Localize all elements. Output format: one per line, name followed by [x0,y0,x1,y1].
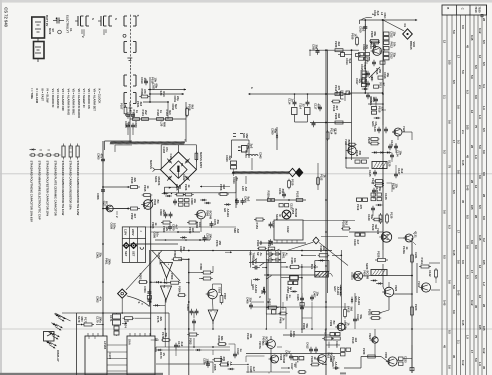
svg-text:0.6: 0.6 [478,175,482,179]
scan edge bottom left [0,373,163,375]
am bar antenna [241,176,248,191]
rectifier bridge outer diamond [160,152,196,187]
svg-text:45: 45 [442,345,446,349]
top legend symbol labels [48,18,118,35]
svg-text:C171: C171 [109,315,113,322]
svg-text:105: 105 [447,60,451,65]
diode row D120 [372,151,392,153]
clock IC 2 [127,333,159,375]
output transformer C220 [365,263,387,276]
svg-text:17: 17 [456,55,460,59]
fold line lower [0,328,492,330]
svg-text:17: 17 [452,140,456,144]
transistor 7224 small [368,333,378,343]
coil lead [246,143,253,170]
svg-text:C: C [461,8,465,10]
svg-text:AM: AM [244,187,248,192]
wire stub x271 [271,127,279,150]
svg-text:10k: 10k [293,258,297,263]
svg-text:P307: P307 [223,293,227,300]
am converter devices [288,93,311,122]
svg-text:OA: OA [374,122,378,126]
capacitor C070 [168,224,178,231]
svg-text:V5 = ALARM IN BUZ: V5 = ALARM IN BUZ [72,89,76,116]
svg-text:9V: 9V [51,29,55,33]
transistor 7403 [351,270,369,281]
svg-text:10n: 10n [198,222,202,227]
svg-text:P230: P230 [362,348,366,355]
svg-text:S: S [114,18,118,20]
svg-text:100k: 100k [107,259,111,266]
svg-text:C1: C1 [69,28,73,32]
svg-text:7141: 7141 [417,281,421,288]
svg-text:S220: S220 [365,263,369,270]
legend resistor symbol 3 [45,150,52,156]
svg-text:0.6: 0.6 [452,310,456,314]
capacitor C405 stack [296,293,304,333]
svg-text:1N: 1N [162,353,166,357]
coil S1 [246,152,263,159]
svg-text:105: 105 [470,205,474,210]
resistor P107 [120,103,127,116]
svg-text:2.1: 2.1 [456,340,460,344]
wire center links [150,258,230,352]
svg-text:100u: 100u [112,223,116,230]
svg-text:BC548: BC548 [208,211,212,220]
svg-text:28: 28 [482,304,486,308]
svg-text:STANDARD POLYTHENE CAPACITOR 1: STANDARD POLYTHENE CAPACITOR 10% 63V [30,161,34,222]
resistor P223 vertical on bus [411,304,419,317]
svg-text:1.2: 1.2 [482,282,486,286]
switch S401 contacts [267,249,281,256]
wave band switch cluster [232,133,250,158]
svg-text:12: 12 [478,55,482,59]
svg-text:P172: P172 [157,253,161,260]
svg-text:P174: P174 [124,322,128,329]
svg-text:0.12: 0.12 [470,300,474,306]
svg-text:C412: C412 [306,342,310,349]
diode pair D220 [371,279,383,284]
rf chain y98-122 parts [369,97,386,127]
svg-text:45: 45 [482,366,486,370]
svg-text:7010: 7010 [474,6,478,13]
svg-text:50u: 50u [370,215,374,220]
svg-text:0.45: 0.45 [442,300,446,306]
resistor P108 [186,104,195,117]
wire switch row [249,260,319,310]
svg-text:47n: 47n [98,297,102,302]
svg-text:17: 17 [456,230,460,234]
svg-text:47n: 47n [254,259,258,264]
svg-text:4p7: 4p7 [127,122,131,127]
wire bottom left runs [246,356,290,374]
wire bridge frame [161,145,196,170]
vertical x318 with box [317,163,327,190]
legend ganged switch symbol [123,15,140,68]
svg-text:1k: 1k [154,223,158,227]
svg-text:17: 17 [470,270,474,274]
svg-text:1u: 1u [239,349,243,353]
legend battery symbol [32,15,49,62]
svg-text:10n: 10n [193,199,197,204]
svg-text:68k: 68k [220,336,224,341]
band legend text column group [30,89,102,119]
svg-text:33n: 33n [216,220,220,225]
rf chain stack y70-92 [355,70,368,90]
svg-text:10n: 10n [315,292,319,297]
resistor P030a [139,89,150,98]
svg-text:C006: C006 [96,193,100,200]
resistor P120 pair [367,137,380,145]
svg-text:FM: FM [365,58,369,63]
resistor P101 mains dropper [195,151,203,168]
svg-text:TIME: TIME [251,253,255,260]
scan edge left [0,0,2,375]
boxes right of 7118 [353,198,368,246]
svg-text:II = ALARM: II = ALARM [35,89,39,104]
svg-text:0.45: 0.45 [461,160,465,166]
svg-text:220V: 220V [131,229,135,236]
sheet code CS 72 940 [4,7,9,27]
svg-text:3.4: 3.4 [482,84,486,88]
svg-text:45: 45 [461,200,465,204]
center extra labels [151,222,240,253]
bridge diode D4 [185,176,190,181]
svg-text:S3: S3 [262,287,266,291]
svg-text:8.5: 8.5 [482,128,486,132]
svg-text:10p: 10p [372,98,376,103]
svg-text:4n7: 4n7 [316,104,320,109]
scan edge top [0,0,492,3]
svg-text:STANDARD POLYESTER CAPACITOR 1: STANDARD POLYESTER CAPACITOR 10% [46,161,50,217]
capacitor C030b [312,44,320,55]
svg-text:10k: 10k [392,42,396,47]
svg-text:1k: 1k [146,186,150,190]
resistor P307 vertical [220,293,227,305]
svg-text:0.2: 0.2 [482,238,486,242]
op-amp A1 [157,253,173,281]
arrow into IC2 [122,320,129,324]
svg-text:ELECTROLYT: ELECTROLYT [66,15,70,33]
resistor P220 [375,251,388,262]
svg-text:110V: 110V [124,229,128,235]
detector cluster C128 [371,193,388,212]
capacitor C156 [269,221,276,228]
bottom mid components extra [285,350,340,373]
svg-text:P220: P220 [377,251,381,258]
op-amp A3 [208,310,218,324]
svg-text:18p: 18p [386,73,390,78]
svg-text:8n2: 8n2 [400,169,404,174]
resistor P403 bold [286,276,303,294]
svg-text:1k: 1k [353,34,357,38]
buzzer box [310,259,332,277]
svg-text:STANDARD PLATE CERAMIC CAPACIT: STANDARD PLATE CERAMIC CAPACITOR [54,161,58,216]
svg-text:45: 45 [452,355,456,359]
top middle extra labels [136,83,180,127]
svg-text:SET: SET [124,251,128,257]
svg-text:0.12: 0.12 [461,360,465,366]
svg-text:AA119: AA119 [336,287,340,296]
svg-text:AA119: AA119 [226,209,230,218]
svg-text:III = FAST: III = FAST [40,89,44,102]
svg-text:8.5: 8.5 [482,62,486,66]
svg-text:28: 28 [474,215,478,219]
svg-text:C221: C221 [414,252,418,259]
svg-text:2k2: 2k2 [344,221,348,226]
if transformer S120 [372,160,392,169]
legend switch contact b [98,16,112,35]
svg-text:68p: 68p [154,84,158,89]
svg-text:22p: 22p [176,96,180,101]
transistor 7407 [262,336,276,372]
svg-text:C027: C027 [129,110,133,117]
bridge diode D2 [185,159,190,164]
svg-text:5k6: 5k6 [374,225,378,230]
svg-text:MW: MW [162,122,166,127]
svg-text:P302: P302 [173,251,177,258]
wire clock links [62,298,151,336]
legend resistor symbol 5 [62,144,65,160]
tuning gang hatched bar right [232,171,290,174]
tuning gang hatched bar [110,139,187,144]
resistor P116 [331,100,341,112]
svg-text:0.8: 0.8 [482,216,486,220]
wire long vertical bus x103 [102,141,104,336]
svg-text:75: 75 [474,125,478,129]
capacitor C153 [279,203,294,210]
svg-text:C101: C101 [169,154,173,161]
svg-text:STANDARD CARBON RESISTOR 5% 0.: STANDARD CARBON RESISTOR 5% 0.2W [76,161,80,216]
svg-text:5.6: 5.6 [478,145,482,149]
svg-text:33p: 33p [281,189,285,194]
rf chain mid components [360,60,390,89]
boxes below P403 [285,281,298,301]
svg-text:10k: 10k [153,78,157,83]
svg-text:BATT 9V: BATT 9V [45,15,49,26]
wire bottom stubs [248,356,320,373]
svg-text:P154: P154 [255,223,259,230]
capacitor stack C069 [159,209,173,218]
capacitor C021 [372,45,386,55]
svg-text:0.2: 0.2 [456,140,460,144]
bridge diode D1 [167,159,172,164]
svg-text:40p: 40p [273,129,277,134]
wire mid-bottom verticals [344,293,355,330]
svg-text:8.5: 8.5 [452,190,456,194]
resistor P114b vertical [326,128,337,141]
diode pair D60 [200,199,211,204]
resistor P045 [142,185,153,196]
resistor P072 [187,221,198,234]
svg-text:8p: 8p [235,178,239,182]
svg-text:0.45: 0.45 [456,290,460,296]
legend resistor symbol 4 [53,154,60,156]
svg-text:B1: B1 [180,163,184,167]
svg-text:28: 28 [482,18,486,22]
svg-text:105: 105 [478,325,482,330]
diode D409 [351,296,361,305]
wire bottom middle [156,347,230,364]
svg-text:150: 150 [218,241,222,246]
svg-text:150: 150 [378,69,382,74]
svg-text:V9 = ALARM SET: V9 = ALARM SET [92,89,96,112]
wire stub x345 [310,50,345,101]
svg-text:28: 28 [470,145,474,149]
LED D3 [48,332,59,340]
svg-text:1n: 1n [290,99,294,103]
bottom band extra labels [246,323,358,363]
svg-text:P127: P127 [371,178,375,185]
svg-text:12: 12 [442,40,446,44]
capacitor C171 stack [109,313,121,335]
svg-text:0.6: 0.6 [482,150,486,154]
svg-text:P223: P223 [414,304,418,311]
svg-text:12k: 12k [394,184,398,189]
svg-text:P120: P120 [367,137,371,144]
resistor P407 [267,299,279,310]
svg-text:12: 12 [478,265,482,269]
svg-text:1k: 1k [346,323,350,327]
svg-text:DISPLAY: DISPLAY [56,350,60,362]
svg-text:5.6: 5.6 [447,365,451,369]
resistor P304 [177,286,186,297]
svg-text:330: 330 [380,107,384,112]
svg-text:0.6: 0.6 [442,210,446,214]
svg-text:0.45: 0.45 [452,250,456,256]
svg-text:3k3: 3k3 [168,110,172,115]
wire y20 top right [360,14,418,25]
wire y200 row [256,191,306,202]
svg-text:0.8: 0.8 [474,245,478,249]
svg-text:28: 28 [470,180,474,184]
svg-text:1k: 1k [405,247,409,251]
legend ganged switch lower contacts [124,68,136,112]
svg-text:8k2: 8k2 [190,105,194,110]
svg-text:P171: P171 [84,317,88,324]
svg-text:2k2: 2k2 [144,110,148,115]
svg-text:P152: P152 [296,191,300,198]
svg-text:0.8: 0.8 [461,25,465,29]
svg-text:1k: 1k [313,357,317,361]
LED D1 [54,314,65,322]
svg-text:2k7: 2k7 [335,106,339,111]
svg-text:1.9: 1.9 [482,106,486,110]
switch S402 contacts [267,252,289,262]
switch levers [249,252,272,291]
wire audio links [361,264,413,368]
resistor P222 stack [368,309,382,320]
svg-text:P306: P306 [199,264,203,271]
wire right chain links [346,19,412,258]
svg-text:C125: C125 [368,170,372,177]
bridge diode D3 [167,176,172,181]
svg-text:17: 17 [470,350,474,354]
svg-text:2n2: 2n2 [180,342,184,347]
diagonal wire to opamp [126,251,180,291]
transistor 7060 [195,210,213,232]
svg-text:5p6: 5p6 [348,59,352,64]
capacitor C120 pair [373,125,388,133]
svg-text:8.5: 8.5 [482,40,486,44]
svg-text:6.3: 6.3 [466,90,470,94]
svg-text:68k: 68k [373,32,377,37]
svg-text:BC: BC [332,321,336,325]
svg-text:AM: AM [236,229,240,234]
svg-text:P141: P141 [420,258,424,265]
svg-text:5.6: 5.6 [452,285,456,289]
svg-text:5k6: 5k6 [349,307,353,312]
resistor P409 pair [322,330,340,341]
svg-text:P304: P304 [178,286,182,293]
legend resistor symbol 2 [37,150,44,156]
wire y227 run [146,222,236,229]
capacitor C010 [359,24,368,33]
alarm diamond symbol [118,289,127,298]
capacitor C304 pair mid [186,304,199,325]
svg-text:470: 470 [359,205,363,210]
svg-text:1n: 1n [287,351,291,355]
svg-text:P303: P303 [139,273,143,280]
op-amp A2 [161,286,172,303]
wire arrow left lower [130,243,178,248]
svg-text:15p: 15p [392,32,396,37]
bridge extra labels [154,147,169,186]
svg-text:C042: C042 [259,152,263,159]
svg-text:V3 = ALARM OFF: V3 = ALARM OFF [61,89,65,112]
svg-text:V7 = SLEEP IN: V7 = SLEEP IN [82,89,86,108]
svg-text:12: 12 [474,185,478,189]
svg-text:7224: 7224 [368,333,372,340]
svg-text:1k: 1k [159,110,163,114]
svg-text:0.8: 0.8 [474,95,478,99]
tuning diamond pointer [289,168,303,176]
svg-text:7120: 7120 [402,126,406,133]
wire stub x236 [235,176,237,208]
resistor P303b [187,333,199,345]
voltage table header marks [446,6,482,13]
wire long vertical double bus x326 [326,50,328,375]
capacitor C403 [251,250,267,270]
svg-text:6k8: 6k8 [222,185,226,190]
transistor 7010 [369,43,381,56]
svg-text:0.6: 0.6 [447,120,451,124]
svg-text:P300: P300 [170,273,174,280]
svg-text:47n: 47n [99,154,103,159]
svg-text:100u: 100u [98,317,102,324]
resistor P305 pair [212,358,224,371]
capacitor C075 [203,233,213,242]
svg-text:V2 = ALARM IN: V2 = ALARM IN [56,89,60,109]
wire diagonal to varicap [383,20,404,31]
diode D407 [263,287,265,294]
wire y243 row [259,239,306,245]
diode cluster D403 [251,278,260,293]
resistor P225 row [175,184,194,196]
svg-text:8p2: 8p2 [361,27,365,32]
resistor P306 pair [199,264,213,281]
wire y50 row [309,49,359,51]
svg-text:56k: 56k [122,104,126,109]
resistor P412 vertical [344,306,354,319]
alarm out cluster [335,341,351,356]
diode D75 [180,236,187,238]
svg-text:10n: 10n [155,232,159,237]
wire long vertical bus x150 [149,196,150,336]
wire long vertical bus x188 [188,260,190,375]
svg-text:39k: 39k [164,333,168,338]
mains input lead [149,160,160,172]
